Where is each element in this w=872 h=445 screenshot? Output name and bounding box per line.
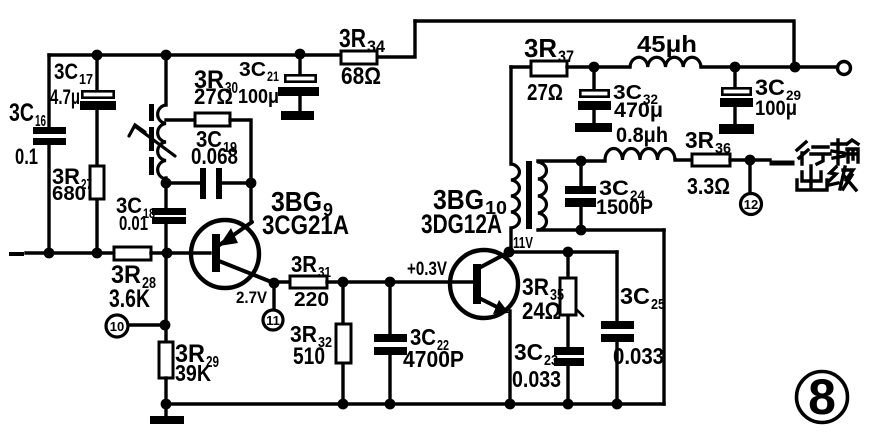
svg-text:3C: 3C [620, 283, 650, 309]
capacitor 3C21 electrolytic to ground [298, 55, 301, 75]
node 10 circle [106, 315, 128, 337]
wire: secondary top lead y=161 [538, 159, 605, 162]
node: rail left end [161, 399, 172, 410]
node: 3C24 bottom [576, 225, 587, 236]
svg-text:27Ω: 27Ω [527, 79, 563, 105]
node: Q1 collector junction [269, 278, 280, 289]
svg-text:3.6K: 3.6K [109, 285, 150, 313]
resistor 3R35 body [560, 278, 576, 315]
inductor 45uh [630, 57, 701, 67]
wire: bottom ground rail [166, 402, 664, 405]
wire: input stub dash [11, 252, 22, 256]
node: 3R32 bottom [338, 399, 349, 410]
node: 3R30/3C19/Q1-emitter junction [246, 178, 257, 189]
svg-text:10: 10 [110, 319, 124, 334]
wire: base line y=253 [26, 251, 114, 254]
svg-text:3.3Ω: 3.3Ω [687, 173, 730, 199]
svg-text:11V: 11V [513, 235, 533, 252]
wire: base-line column down to rail [164, 253, 167, 342]
ground symbol [164, 404, 167, 417]
wire: node 12 stem [748, 160, 751, 193]
resistor 3R36 body [692, 154, 730, 166]
transistor Q2 collector line [479, 252, 509, 268]
inductor 0.8uh [605, 149, 675, 161]
transistor Q1 collector line [219, 261, 274, 283]
node: rail/3C17 junction [92, 50, 103, 61]
svg-text:0.033: 0.033 [613, 343, 664, 369]
wire: 3R35/3C23 column [566, 252, 569, 404]
wire: collector row y=252 [509, 250, 617, 253]
arrow: coil adjustment arrow [136, 127, 175, 156]
svg-text:3CG21A: 3CG21A [262, 210, 349, 240]
wire: collector to 3R31 [274, 280, 290, 283]
wire: 3C18 to base line [164, 224, 167, 253]
svg-text:17: 17 [79, 71, 93, 88]
node: coil bottom junction [161, 178, 172, 189]
capacitor 3C24 [579, 161, 582, 230]
transistor Q1 emitter line (arrow to base) [218, 222, 252, 246]
svg-text:100μ: 100μ [755, 97, 797, 120]
wire: coil bottom to 3C19 [166, 181, 201, 184]
wire: 3R29 to rail [164, 378, 167, 404]
capacitor 3C17 electrolytic plates [82, 91, 113, 97]
svg-text:3R: 3R [291, 251, 317, 277]
capacitor 3C32 electrolytic to ground [592, 67, 595, 90]
svg-text:3R: 3R [524, 33, 557, 63]
wire: 3R30 left lead [166, 118, 195, 121]
figure number 8 in circle [797, 372, 848, 423]
wire: 3R28 to Q1 base [151, 251, 210, 254]
capacitor 3C25 plates [601, 321, 634, 329]
transistor Q2 emitter line with arrow [479, 298, 503, 310]
capacitor 3C18 plates [152, 208, 186, 215]
node: 3R32 top [338, 277, 349, 288]
node: 3C25 bottom [612, 399, 623, 410]
svg-text:0.8μh: 0.8μh [616, 124, 668, 147]
transistor Q1 3BG9 circle [191, 220, 259, 288]
svg-text:16: 16 [35, 113, 46, 130]
svg-text:12: 12 [744, 197, 758, 212]
wire: 3R30 right lead down x=251 [230, 120, 251, 221]
resistor 3R27 body [90, 166, 104, 199]
svg-text:8: 8 [808, 369, 836, 425]
svg-text:0.1: 0.1 [15, 144, 38, 169]
wire: 45uh to riser [701, 65, 794, 68]
wire: 3C19 right lead [222, 181, 251, 184]
capacitor 3C29 electrolytic to ground [733, 67, 736, 88]
wire: 3R32 column [341, 282, 344, 404]
node: 3C32 top [589, 62, 600, 73]
resistor 3R29 body [159, 342, 173, 378]
wire: 3C22 column [388, 282, 391, 404]
svg-text:0.033: 0.033 [512, 366, 561, 392]
wire: 3R34 right lead and riser to top rail [377, 21, 415, 57]
svg-text:4.7μ: 4.7μ [50, 86, 80, 109]
svg-text:+0.3V: +0.3V [407, 259, 447, 280]
svg-text:4700P: 4700P [403, 346, 464, 372]
svg-text:470μ: 470μ [614, 99, 663, 122]
transistor Q1 base bar [212, 234, 220, 272]
svg-text:510: 510 [293, 343, 325, 370]
transformer T1 secondary winding [538, 162, 546, 230]
transformer T1 primary winding [509, 67, 512, 164]
node: emitter at rail [505, 399, 516, 410]
svg-text:34: 34 [367, 37, 386, 56]
wire: 3C17/3R27 column x=97 [95, 55, 98, 90]
svg-text:36: 36 [715, 140, 731, 157]
wire: thick dash toward label [772, 161, 792, 166]
node: top-rail / 45uh row junction [790, 62, 801, 73]
wire: top-left supply rail y=55 [49, 53, 341, 56]
svg-text:24Ω: 24Ω [522, 298, 561, 325]
svg-text:3C: 3C [54, 59, 78, 84]
node: 3R27 column on base line [92, 248, 103, 259]
svg-text:27Ω: 27Ω [194, 84, 233, 109]
node: 3R35 top [563, 247, 574, 258]
node: 3C22 top [385, 277, 396, 288]
svg-text:37: 37 [558, 47, 574, 66]
resistor 3R37 body [531, 61, 567, 76]
wire: 3R36 to output junction [730, 158, 770, 161]
node: 3C16 column on base line [44, 248, 55, 259]
text: hang-shu-chu-ji (to line output stage), drawn strokes [797, 140, 858, 190]
capacitor 3C19 plates [200, 168, 206, 199]
terminal: RF output open circle [838, 62, 851, 75]
core: adjustable slug dashes [149, 104, 154, 121]
svg-text:0.068: 0.068 [191, 143, 238, 169]
node: 3C22 bottom [385, 399, 396, 410]
transistor Q2 3BG10 circle [450, 250, 518, 318]
node 12 circle [741, 194, 762, 215]
resistor 3R34 body [341, 51, 377, 64]
wire: 3R37 right lead [567, 65, 630, 68]
capacitor 3C23 plates [554, 347, 584, 355]
wire: 3R37 left lead corner [511, 65, 531, 68]
node: Q1 base junction [162, 248, 173, 259]
transistor Q2 base bar [473, 264, 481, 304]
svg-text:1500P: 1500P [596, 196, 653, 219]
node: rail/coil junction [161, 50, 172, 61]
wire: 3C25 column [615, 252, 618, 404]
capacitor 3C16 plates [33, 127, 66, 134]
svg-text:220: 220 [294, 289, 329, 311]
svg-text:100μ: 100μ [238, 86, 279, 108]
wire: top rail y=21 to right corner [415, 21, 794, 66]
wire: 0.8uh to 3R36 [675, 158, 692, 161]
wire: 3R31 to Q2 base [327, 280, 473, 283]
svg-text:39K: 39K [175, 360, 211, 386]
wire: secondary bottom lead y=230 [538, 228, 664, 231]
node: 3C24 top [576, 156, 587, 167]
node: 3C23 bottom [563, 399, 574, 410]
svg-text:21: 21 [267, 68, 279, 84]
wire: right branch down to rail [662, 230, 665, 404]
svg-text:3C: 3C [239, 59, 266, 81]
svg-text:31: 31 [318, 264, 331, 281]
svg-text:3C: 3C [514, 339, 543, 365]
svg-text:11: 11 [266, 313, 280, 328]
svg-text:3R: 3R [522, 274, 549, 301]
wire: node 10 row [128, 323, 166, 326]
node: Q2 collector junction [504, 247, 515, 258]
wire: feed row to output terminal [794, 65, 837, 68]
wire: 3C16 column x=49 [47, 55, 50, 128]
svg-text:3R: 3R [339, 23, 366, 53]
svg-text:0.01: 0.01 [119, 213, 148, 235]
svg-text:3DG12A: 3DG12A [421, 209, 502, 239]
transformer T1 core bar [526, 161, 532, 229]
capacitor 3C22 plates [374, 334, 407, 342]
node: line-output feed junction [745, 155, 756, 166]
wire: coil column top [164, 55, 167, 105]
node 11 circle [263, 310, 283, 330]
wire: node 11 stem [272, 284, 275, 310]
svg-text:68Ω: 68Ω [341, 63, 381, 90]
svg-text:2.7V: 2.7V [236, 288, 268, 307]
svg-text:680: 680 [52, 183, 86, 205]
svg-text:3C: 3C [9, 99, 34, 127]
node: 3C21 top [295, 49, 306, 60]
svg-text:3R: 3R [685, 127, 714, 153]
resistor 3R28 body [114, 247, 151, 260]
resistor 3R30 body [195, 113, 230, 126]
resistor 3R31 body [290, 276, 327, 288]
node: junction above 3R29 [160, 320, 171, 331]
wire: Q2 emitter down [508, 311, 511, 404]
wire: coil junction down to 3C18 [164, 183, 167, 210]
node: 3C29 top [730, 62, 741, 73]
inductor L1 oscillator coil [158, 105, 166, 179]
svg-text:45μh: 45μh [637, 31, 697, 57]
resistor 3R32 body [336, 324, 351, 363]
